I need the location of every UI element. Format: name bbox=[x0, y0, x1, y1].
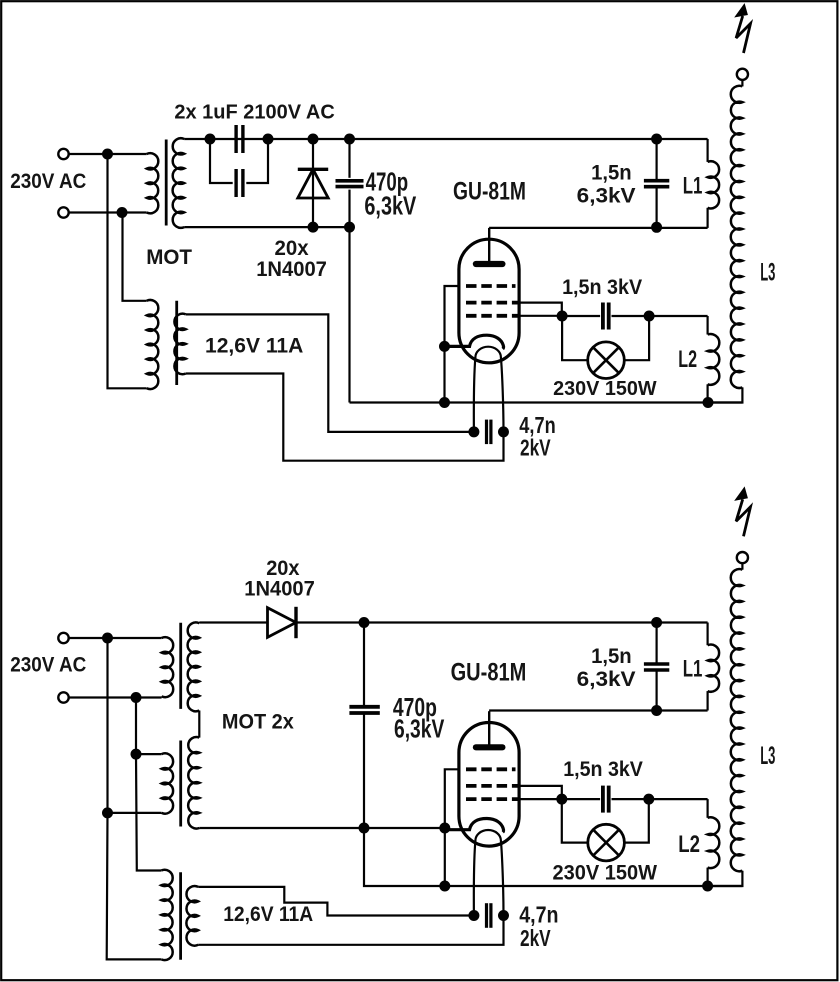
junction grid node (top) bbox=[557, 311, 568, 322]
wire C1 right drop bbox=[246, 139, 268, 183]
tetrode V1 envelope bbox=[459, 239, 519, 363]
input terminal J2 neutral bbox=[58, 692, 68, 702]
junction C8 bottom bbox=[651, 705, 662, 716]
junction line (bottom) bbox=[102, 633, 113, 644]
wire line drop to heater transformer (top) bbox=[108, 154, 147, 388]
wire L1 bottom lead (bottom) bbox=[706, 691, 708, 710]
transformer MOT2 secondary (bottom) bbox=[188, 737, 199, 829]
junction grid node (bottom) bbox=[556, 794, 567, 805]
wire C8 top lead bbox=[655, 623, 657, 664]
spark discharge (top) bbox=[736, 16, 750, 53]
wire L3 bottom lead (bottom) bbox=[708, 871, 743, 886]
wire L3 top lead (top) bbox=[741, 80, 743, 87]
wire lamp left leg (bottom) bbox=[562, 799, 588, 843]
transformer T2 secondary (top) bbox=[174, 314, 186, 375]
inductor L1 (top) bbox=[708, 161, 720, 208]
wire MOT2 primary return bbox=[108, 812, 162, 814]
wire lamp right leg (top) bbox=[624, 316, 649, 360]
transformer T3 core (bottom) bbox=[179, 872, 182, 959]
junction C2 top bbox=[344, 134, 355, 145]
junction C6 bottom / cathode wire bbox=[359, 823, 370, 834]
transformer MOT1 secondary (bottom) bbox=[188, 622, 200, 711]
junction C7 right (bottom) bbox=[643, 794, 654, 805]
wire MOT secondary return (top) bbox=[184, 226, 349, 228]
capacitor C7 1,5n 3kV (bottom) bbox=[601, 786, 605, 813]
wire grid1 exit right (top) bbox=[518, 315, 562, 317]
wire C4 top lead (top) bbox=[655, 139, 657, 180]
capacitor C6 470p (bottom) bbox=[349, 705, 379, 709]
tetrode V1 anode lead bbox=[488, 228, 490, 261]
wire C3 to L2 (top) bbox=[612, 315, 708, 317]
wire heater top to C9 (bottom) bbox=[198, 887, 474, 916]
svg-text:MOT: MOT bbox=[146, 246, 192, 269]
wire C8 bottom lead bbox=[655, 671, 657, 711]
junction C5 right (top) bbox=[498, 426, 509, 437]
inductor L3 (bottom) bbox=[731, 569, 743, 871]
svg-text:230V AC: 230V AC bbox=[10, 653, 86, 676]
transformer T2 core (top) bbox=[175, 301, 178, 385]
transformer MOT primary winding bbox=[147, 153, 159, 213]
tetrode V1 cathode bbox=[445, 335, 504, 349]
wire heater bottom to filament (bottom) bbox=[198, 916, 503, 945]
junction neutral/heater (top) bbox=[117, 207, 128, 218]
wire line drop 2 (bottom) bbox=[107, 813, 162, 960]
tetrode V1 grid2 dashes bbox=[466, 301, 518, 305]
wire lamp right leg (bottom) bbox=[624, 799, 648, 843]
lamp E1 230V 150W (top) bbox=[588, 342, 625, 379]
tetrode V2 cathode bbox=[445, 818, 504, 832]
transformer MOT1 core bbox=[179, 623, 182, 709]
wire grid2 exit right (bottom) bbox=[518, 786, 562, 799]
svg-text:12,6V 11A: 12,6V 11A bbox=[223, 903, 313, 926]
wire grid2 exit right (top) bbox=[518, 303, 562, 316]
svg-text:2kV: 2kV bbox=[520, 925, 551, 951]
capacitor C1a 1uF bbox=[234, 125, 237, 153]
capacitor C5 4,7n 2kV (top) bbox=[485, 420, 488, 445]
svg-text:2kV: 2kV bbox=[520, 434, 551, 460]
svg-text:230V AC: 230V AC bbox=[10, 170, 86, 193]
wire MOT secondaries series link bbox=[198, 711, 200, 738]
wire J1 line to MOT primary bbox=[69, 153, 147, 155]
wire anode to tank (top) bbox=[489, 227, 707, 229]
wire L3 bottom lead (top) bbox=[708, 387, 742, 402]
junction C2 bottom bbox=[344, 222, 355, 233]
svg-text:1,5n 3kV: 1,5n 3kV bbox=[562, 275, 643, 299]
capacitor C4 1,5n 6,3kV (top) bbox=[644, 179, 669, 183]
transformer T3 primary (bottom) bbox=[161, 870, 172, 960]
svg-text:L2: L2 bbox=[678, 831, 700, 858]
bottom circuit bbox=[10, 488, 775, 961]
junction rail / grid leak (bottom) bbox=[439, 881, 450, 892]
wire L2 top lead (bottom) bbox=[706, 799, 708, 818]
capacitor C8 1,5n 6,3kV (bottom) bbox=[644, 662, 669, 666]
wire L1 top lead (bottom) bbox=[706, 623, 708, 646]
transformer MOT core bbox=[165, 140, 168, 226]
wire neutral drop to heater transformer (top) bbox=[123, 213, 147, 301]
wire cathode rail (top) bbox=[350, 401, 743, 403]
svg-text:6,3kV: 6,3kV bbox=[394, 714, 445, 744]
junction diode anode top bbox=[308, 134, 319, 145]
wire grid node to C7 bbox=[562, 798, 600, 800]
tetrode V2 envelope bbox=[459, 722, 519, 846]
wire L2 bottom lead (bottom) bbox=[706, 868, 708, 886]
tetrode V1 grid1 dashes bbox=[466, 314, 518, 318]
diode D2 20x 1N4007 bbox=[268, 608, 297, 638]
wire MOT1 sec top to diode bbox=[199, 621, 267, 623]
svg-text:230V 150W: 230V 150W bbox=[553, 860, 658, 884]
junction grid leak / cathode (top) bbox=[439, 341, 450, 352]
svg-text:6,3kV: 6,3kV bbox=[364, 190, 416, 220]
wire J1 neutral to MOT primary bbox=[69, 211, 147, 213]
tetrode V2 anode lead bbox=[488, 711, 490, 744]
wire diode (top) bbox=[312, 139, 314, 227]
svg-text:12,6V 11A: 12,6V 11A bbox=[205, 335, 303, 358]
wire C2 bottom lead bbox=[348, 190, 350, 228]
svg-text:20x: 20x bbox=[266, 557, 300, 580]
junction C9 right bbox=[498, 910, 509, 921]
junction C1a left bbox=[205, 134, 216, 145]
wire grid3 exit left (top) bbox=[445, 286, 459, 346]
junction diode cathode bottom bbox=[308, 222, 319, 233]
junction neutral / MOT2 feed bbox=[131, 749, 142, 760]
junction line/heater (top) bbox=[102, 149, 113, 160]
wire C6 to rail (bottom) bbox=[364, 828, 742, 886]
capacitor C9 4,7n 2kV (bottom) bbox=[485, 903, 488, 928]
svg-text:L2: L2 bbox=[678, 346, 697, 373]
svg-text:6,3kV: 6,3kV bbox=[577, 185, 636, 208]
wire grid node to C3 (top) bbox=[562, 315, 600, 317]
junction C4 bottom (top) bbox=[651, 222, 662, 233]
tetrode V1 filament bbox=[474, 347, 504, 432]
wire anode to tank (bottom) bbox=[489, 709, 707, 711]
junction line / MOT2 return bbox=[102, 807, 113, 818]
tetrode V2 grid3 dashes bbox=[466, 767, 516, 771]
junction C4 top (top) bbox=[651, 134, 662, 145]
svg-text:1N4007: 1N4007 bbox=[244, 578, 314, 601]
transformer MOT2 core bbox=[179, 741, 182, 827]
wire line drop (bottom) bbox=[106, 638, 108, 813]
wire grid1 exit right (bottom) bbox=[518, 798, 562, 800]
inductor L3 (top) bbox=[731, 86, 743, 388]
wire heater bottom to filament (top) bbox=[186, 374, 504, 461]
junction C6 top bbox=[359, 617, 370, 628]
svg-text:L1: L1 bbox=[683, 656, 703, 683]
svg-text:230V 150W: 230V 150W bbox=[553, 378, 657, 400]
transformer T3 secondary (bottom) bbox=[186, 886, 198, 946]
svg-text:MOT 2x: MOT 2x bbox=[222, 711, 294, 734]
wire grid leak to rail (top) bbox=[443, 346, 445, 402]
input terminal J1 line bbox=[58, 149, 68, 159]
top circuit bbox=[10, 4, 775, 461]
svg-text:GU-81M: GU-81M bbox=[451, 659, 527, 687]
tetrode V2 grid2 dashes bbox=[466, 784, 518, 788]
wire neutral drop 2 (bottom) bbox=[136, 754, 161, 870]
svg-text:L1: L1 bbox=[683, 172, 703, 199]
tetrode V1 grid3 dashes bbox=[466, 284, 516, 288]
wire diode to bus (bottom) bbox=[296, 621, 708, 623]
capacitor C1b 1uF bbox=[234, 169, 237, 197]
wire MOT2 sec bottom to cathode node bbox=[199, 827, 444, 829]
wire grid3 exit left (bottom) bbox=[445, 769, 459, 828]
wire C4 bottom lead (top) bbox=[655, 187, 657, 227]
transformer MOT2 primary (bottom) bbox=[162, 753, 174, 813]
inductor L2 (top) bbox=[708, 334, 720, 385]
tetrode V1 anode plate bbox=[476, 261, 503, 267]
wire grid leak to rail (bottom) bbox=[444, 828, 446, 886]
transformer T2 primary (top) bbox=[147, 300, 159, 389]
toroid terminal (bottom) bbox=[737, 552, 748, 563]
wire lamp left leg (top) bbox=[562, 316, 588, 360]
wire heater top to C5 (top) bbox=[186, 314, 474, 432]
wire HV+ bus (top) bbox=[184, 138, 707, 140]
svg-text:2x 1uF 2100V AC: 2x 1uF 2100V AC bbox=[174, 100, 335, 123]
svg-text:L3: L3 bbox=[760, 742, 775, 770]
inductor L2 (bottom) bbox=[708, 817, 720, 868]
junction grid leak / cathode (bottom) bbox=[439, 823, 450, 834]
svg-text:6,3kV: 6,3kV bbox=[577, 668, 636, 691]
junction C3 right (top) bbox=[644, 311, 655, 322]
junction C5 left (top) bbox=[468, 426, 479, 437]
transformer MOT secondary winding bbox=[173, 138, 185, 228]
junction cathode rail / L2 (top) bbox=[703, 397, 714, 408]
junction C8 top bbox=[651, 617, 662, 628]
lamp E2 230V 150W (bottom) bbox=[588, 824, 625, 861]
svg-text:L3: L3 bbox=[760, 259, 775, 287]
tetrode V2 anode plate bbox=[476, 744, 503, 750]
wire L3 top lead (bottom) bbox=[741, 563, 743, 570]
diode D1 20x 1N4007 bbox=[298, 168, 328, 171]
svg-text:1N4007: 1N4007 bbox=[256, 258, 327, 281]
input terminal J2 line bbox=[58, 633, 68, 643]
wire C2 top lead bbox=[348, 139, 350, 178]
svg-text:1,5n 3kV: 1,5n 3kV bbox=[563, 757, 643, 781]
svg-text:4,7n: 4,7n bbox=[519, 902, 558, 928]
wire neutral drop (bottom) bbox=[135, 698, 137, 755]
wire J2 neutral to MOTs bbox=[69, 696, 162, 698]
input terminal J1 neutral bbox=[58, 207, 68, 217]
junction C9 left bbox=[468, 910, 479, 921]
wire L2 top lead (top) bbox=[706, 316, 708, 335]
junction rail / L2 (bottom) bbox=[702, 881, 713, 892]
wire L1 top lead (top) bbox=[706, 139, 708, 162]
transformer MOT1 primary (bottom) bbox=[162, 637, 174, 697]
wire HV- drop (top) bbox=[348, 227, 350, 402]
wire C6 bottom lead bbox=[363, 713, 365, 828]
junction cathode rail / grid leak (top) bbox=[439, 397, 450, 408]
wire L2 bottom lead (top) bbox=[706, 384, 708, 402]
wire J2 line to MOTs bbox=[69, 637, 162, 639]
svg-text:GU-81M: GU-81M bbox=[453, 178, 526, 206]
wire MOT2 primary feed bbox=[136, 753, 162, 755]
wire C7 to L2 (bottom) bbox=[612, 798, 708, 800]
junction C1a right bbox=[263, 134, 274, 145]
inductor L1 (bottom) bbox=[708, 645, 720, 692]
spark discharge (bottom) bbox=[736, 499, 750, 536]
junction neutral (bottom) bbox=[131, 692, 142, 703]
wire C6 top lead bbox=[363, 623, 365, 707]
capacitor C3 1,5n 3kV (top) bbox=[601, 303, 605, 330]
svg-text:20x: 20x bbox=[275, 237, 309, 260]
wire L1 bottom lead (top) bbox=[706, 208, 708, 228]
tetrode V2 filament bbox=[474, 830, 504, 916]
capacitor C2 470p bbox=[336, 179, 364, 183]
toroid terminal (top) bbox=[737, 69, 748, 80]
svg-text:1,5n: 1,5n bbox=[591, 645, 632, 668]
svg-text:1,5n: 1,5n bbox=[591, 162, 632, 185]
wire C1 left drop bbox=[210, 139, 233, 183]
tetrode V2 grid1 dashes bbox=[466, 797, 518, 801]
